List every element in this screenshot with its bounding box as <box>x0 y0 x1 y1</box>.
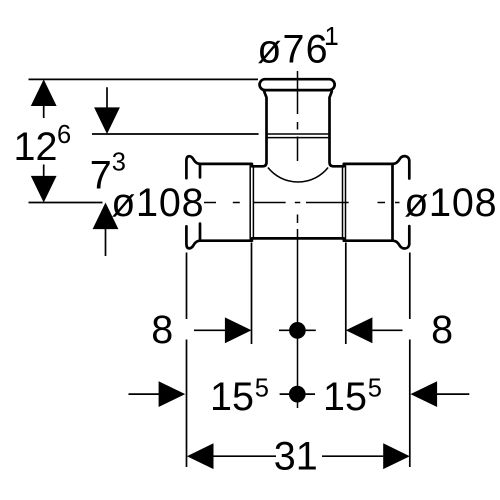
branch socket depth lines <box>267 134 329 138</box>
left socket extension line <box>251 243 253 345</box>
arrow right (dim 15.5 far-left) <box>159 381 186 407</box>
dim 12.6 arrow tails <box>43 105 45 177</box>
wire body top-right wall with socket step <box>330 92 393 167</box>
right top bead <box>393 156 410 178</box>
wire left mouth line lower <box>199 224 202 241</box>
left bottom bead <box>186 226 200 248</box>
dim 15.5 far-left line <box>129 393 160 395</box>
arrow down (dim 7.3 top) <box>94 107 120 134</box>
left top bead <box>186 156 200 178</box>
arrow left (dim 15.5 far-right) <box>411 381 438 407</box>
svg-text:5: 5 <box>255 375 269 403</box>
dim 31 lines <box>213 455 383 457</box>
arrow down (dim 12.6 bottom) <box>31 176 57 203</box>
svg-text:ø108: ø108 <box>404 181 497 225</box>
svg-text:1: 1 <box>325 23 339 51</box>
wire body top-left wall with socket step <box>200 92 267 167</box>
svg-text:3: 3 <box>112 148 126 176</box>
dim 8 left line <box>194 329 226 331</box>
svg-text:5: 5 <box>368 375 382 403</box>
svg-text:8: 8 <box>151 308 173 352</box>
fitting body outline <box>186 79 409 248</box>
branch bead <box>260 79 335 90</box>
svg-text:15: 15 <box>210 375 254 419</box>
dot row1 <box>289 322 306 339</box>
dim 7.3 arrow tails <box>106 87 108 256</box>
svg-text:12: 12 <box>14 125 58 169</box>
dimension line C (center level, left extension) <box>29 202 103 204</box>
dim 15.5 far-right line <box>437 393 469 395</box>
arrow right (dim 8 left) <box>225 317 252 343</box>
arrow left (dim 31 left) <box>187 443 214 469</box>
arrow left (dim 8 right) <box>346 317 373 343</box>
dot stubs row2 <box>280 393 315 395</box>
right socket depth lines <box>343 165 346 239</box>
interior arc <box>268 168 328 182</box>
svg-text:7: 7 <box>90 154 112 198</box>
right bottom bead <box>393 226 410 248</box>
arrow right (dim 31 right) <box>383 443 410 469</box>
svg-text:ø76: ø76 <box>257 27 329 71</box>
dot stubs row1 <box>279 329 316 331</box>
arrow up (dim 12.6 top) <box>31 79 57 106</box>
horizontal centerline <box>204 202 400 204</box>
svg-text:15: 15 <box>323 375 367 419</box>
right outer extension line <box>409 253 411 468</box>
vertical centerline <box>297 71 299 408</box>
svg-text:31: 31 <box>274 435 318 479</box>
dimension line B (branch socket depth level) <box>92 133 259 135</box>
wire right mouth line <box>391 164 394 241</box>
left socket depth lines <box>250 165 253 239</box>
arrow up (dim 7.3 bottom) <box>93 203 119 230</box>
svg-text:ø108: ø108 <box>111 181 204 225</box>
wire left mouth line upper <box>199 164 202 178</box>
svg-text:8: 8 <box>431 308 453 352</box>
dot row2 <box>289 386 306 403</box>
dimension line A (top of branch level) <box>29 78 259 80</box>
right socket extension line <box>345 243 347 345</box>
svg-text:6: 6 <box>57 121 71 149</box>
left outer extension line <box>186 253 188 468</box>
wire body bottom wall with socket steps <box>200 238 393 240</box>
dim 8 right line <box>372 329 402 331</box>
